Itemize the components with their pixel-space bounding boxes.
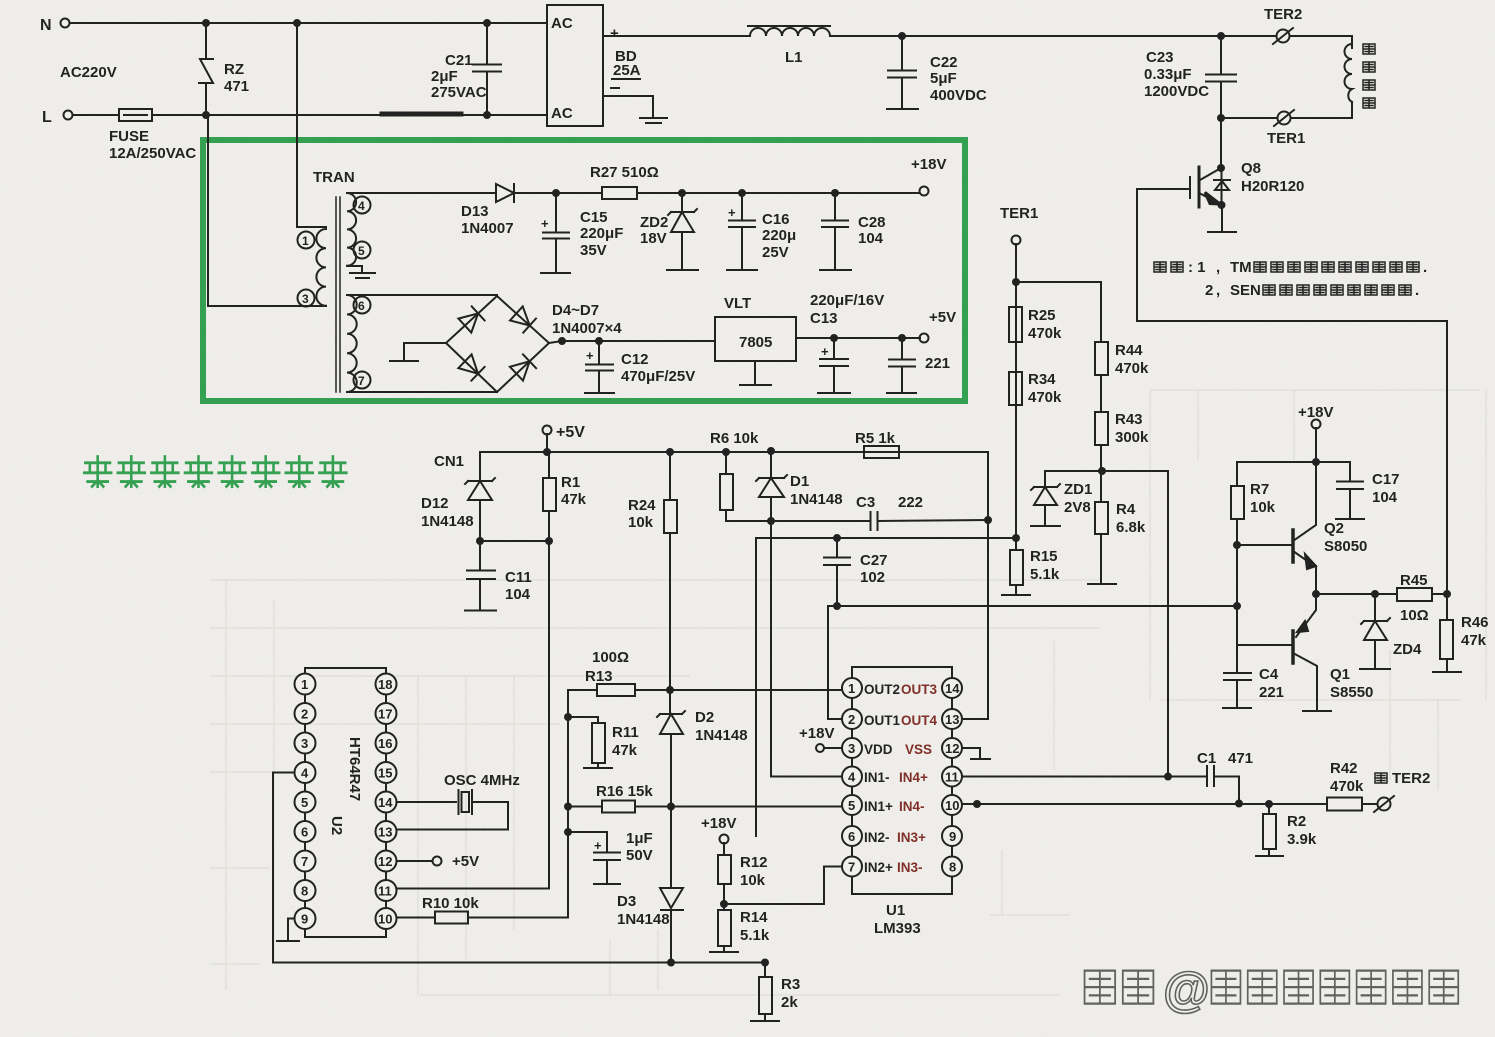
resistor R10 10k [397,895,569,924]
node junction C27 top [834,535,840,541]
transistor Q8 H20R120 IGBT [1190,160,1304,231]
pin 5 U1 [842,795,925,815]
resistor R7 10k [1231,462,1276,545]
wire D12 to R1 bottom [480,540,549,542]
transformer secondary1 winding [347,193,356,266]
crystal OSC 4MHz [397,772,520,830]
node +5V terminal top [920,309,957,343]
node +5V terminal mid [543,424,586,441]
pin 5 U2 [295,792,316,813]
pin 2 U1 [842,709,937,729]
ground secondary1 [350,273,375,278]
inductor L1 [748,26,830,66]
ground R11 [584,767,612,769]
label shuoming note line1 [1154,259,1252,276]
wire L to fuse [73,114,119,116]
resistor R24 10k [628,452,677,690]
wire riser pin2 [828,606,842,719]
diode D3 1N4148 [617,807,683,963]
pin label 5 [354,242,371,259]
wire C23 to Q8 collector [1220,118,1222,168]
ground Q1 collector [1303,710,1331,712]
pin 1 U1 [842,678,937,698]
wire pin11 to riser [397,888,550,890]
pin 8 U2 [295,880,316,901]
resistor R42 470k [1327,760,1377,811]
node junction N-C21 [484,20,490,26]
connector TER1 top [1267,110,1305,147]
pin 18 U2 [376,674,397,695]
wire riser C3 to rail [987,520,989,606]
resistor R27 510 ohm [556,164,682,199]
label heating coil hanzi [1363,44,1375,108]
wire ZD1 top line [1045,470,1168,472]
resistor R4 6.8k [1095,501,1146,583]
pin label 7 [354,372,371,389]
faint scan grid [210,390,1480,995]
capacitor C23 0.33uF 1200VDC [1144,36,1236,119]
ground 7805 [740,384,771,386]
node junction D3 bottom [668,960,674,966]
ground BD minus [640,118,667,123]
node junction C16 [739,190,745,196]
zener ZD1 2V8 [1031,471,1092,525]
pin 10 U1 [942,795,962,815]
wire pin4 riser to bottom rail [272,773,274,963]
node junction emitters [1313,591,1319,597]
pin 4 U2 [273,762,316,783]
node junction L-C21 [484,112,490,118]
capacitor C3 222 [771,494,988,530]
bridge D4~D7 1N4007x4 [446,296,622,392]
pin 9 U2 [295,908,316,929]
node junction C12 [596,338,602,344]
capacitor C27 102 [824,538,888,606]
node junction R11 [565,714,571,720]
wire thick scan segment [382,112,461,117]
pin 14 U1 [942,678,962,698]
wire R5 corner riser [899,452,988,520]
wire TER1 down [1015,244,1017,538]
node junction D1 bottom [768,518,774,524]
pin label 1 [298,232,315,249]
node junction C23 top [1218,33,1224,39]
wire secondary1 bottom to ground [347,266,362,272]
resistor R15 5.1k [1010,538,1060,594]
wire TER2 to coil [1290,36,1352,48]
connector TER2 bottom [1374,796,1394,812]
wire pin10 net [962,803,1327,805]
node junction TER1 split [1013,279,1019,285]
node junction R45-R46 [1444,591,1450,597]
wire bridge left to ground [404,343,446,360]
node junction D2-D3-pin5 [668,804,674,810]
heating coil winding [1291,44,1352,118]
wire Q1 base [1237,644,1293,646]
wire R43 to R4 [1100,445,1102,502]
label CN1 [434,453,464,470]
green highlight box [203,140,965,401]
node junction ZD1 line [1099,468,1105,474]
wire bottom rail [273,962,765,964]
node junction R16 left [565,804,571,810]
pin 3 U2 [295,733,316,754]
wire R7 riser down [1236,545,1238,673]
ground ZD2 [667,269,698,271]
node junction C22 [899,33,905,39]
capacitor C28 104 [820,193,886,270]
node junction 1uF tap [565,829,571,835]
wire R12 junction to pin7 [724,867,842,905]
wire +18V to rail [1237,428,1350,462]
pin 2 U2 [295,703,316,724]
transformer core [336,197,340,392]
resistor R43 300k [1095,411,1149,446]
wire BD plus output [603,35,750,37]
node junction C3 right [985,517,991,523]
varistor RZ 471 [199,23,249,115]
resistor R16 15k [568,783,842,813]
wire riser R13 left [567,690,569,918]
wire bridge output [549,341,715,343]
wire riser R1 to pin11 [548,541,550,889]
bridge rectifier BD 25A block [547,5,641,126]
pin 7 U2 [295,851,316,872]
ground pin12 [971,758,990,760]
pin 14 U2 [376,792,397,813]
wire rail to +18V [835,192,919,194]
node junction pin11-ZD1riser [1165,774,1171,780]
node junction R6 top [723,449,729,455]
connector TER2 [1264,6,1302,44]
wire R44 to R43 [1100,375,1102,412]
pin 11 U1 [942,767,962,787]
node TER1 terminal [1000,205,1038,245]
wire TRAN primary top lead [297,23,326,227]
ground R3 [751,1020,779,1022]
node junction N-TRAN [294,20,300,26]
node junction rail end [1234,603,1240,609]
capacitor C15 220uF 35V [541,193,623,273]
node junction R1 bottom [546,538,552,544]
wire branch to R44 [1016,282,1101,342]
node junction bridge out [559,338,565,344]
node junction pin10 stub [974,801,980,807]
resistor R2 3.9k [1263,804,1317,855]
pin 9 U1 [942,826,962,846]
resistor R25 470k [1009,307,1062,342]
resistor R45 10ohm [1397,572,1447,624]
wire IN2- net [756,538,1016,836]
pin label 4 [354,197,371,214]
node junction R12-R14 [721,901,727,907]
zener ZD4 [1361,594,1422,668]
node junction Q2 collector rail [1313,459,1319,465]
wire pin9 to ground [288,919,295,941]
pin 11 U2 [376,880,397,901]
ground Q8 emitter [1208,231,1236,233]
fuse FUSE 12A/250VAC [109,109,196,162]
wire pin11 net [962,776,1205,778]
transformer TRAN primary winding [313,169,355,306]
node +18V terminal Q2 [1298,404,1333,429]
resistor R3 2k [759,963,800,1021]
wire rail OUT1 net [828,605,1239,607]
node junction C27 bottom [834,603,840,609]
ground ZD4 [1360,668,1390,670]
diode D2 1N4148 [657,690,748,807]
label green caption hanzi [0,0,1,1]
node junction C13 [831,335,837,341]
resistor R34 470k [1009,371,1062,406]
pin label 6 [354,297,371,314]
node junction R7 bottom [1234,542,1240,548]
wire secondary2 top to bridge [347,294,497,296]
node junction R2 top [1266,801,1272,807]
node junction ZD2 [679,190,685,196]
capacitor C21 2uF 275VAC [431,23,501,115]
node +18V terminal top [911,156,946,196]
wire 7805 ground [754,361,756,384]
capacitor C13 220uF/16V [810,292,884,393]
capacitor C12 470uF/25V [585,341,695,393]
ground R15 [1002,594,1030,596]
ground R2 [1256,855,1283,857]
transistor Q1 S8550 [1293,594,1373,710]
capacitor C16 220u 25V [727,193,796,270]
pin 1 U2 [295,674,316,695]
node +5V terminal pin12 [433,853,480,870]
node junction D1 top [768,448,774,454]
capacitor 1uF 50V [568,830,653,884]
ground R46 [1433,671,1461,673]
wire L1 to TER2 node [830,35,1221,37]
wire ZD1 right riser [1167,471,1169,777]
node junction cap221 [899,335,905,341]
node junction C1 bottom [1236,801,1242,807]
resistor R12 10k [718,843,768,904]
wire TRAN primary bottom lead [208,118,326,306]
watermark toutiao [1085,971,1154,1004]
node junction R24 top [667,449,673,455]
wire emitter to R45 [1316,593,1397,595]
pin 7 U1 [842,857,923,877]
node L terminal [42,109,73,126]
ground R4 [1088,583,1116,585]
label green caption strokes [84,457,346,487]
resistor R11 47k [568,717,639,767]
wire R7 to Q2 base [1237,544,1293,546]
wire N rail [70,22,547,24]
node N terminal [40,17,70,34]
resistor R44 470k [1095,342,1149,377]
pin 13 U2 [376,821,397,842]
node +18V terminal pin3 [799,725,834,752]
ground ZD1 [1031,525,1060,527]
ground pin9 [277,940,299,942]
wire pin12 ground hook [962,748,980,758]
capacitor C1 471 [1197,750,1253,804]
label jie TER2 [1375,770,1430,787]
pin 6 U1 [842,826,926,846]
label AC220V [60,64,117,81]
node junction C23 bottom [1218,115,1224,121]
ground R14 [710,951,738,953]
node +18V terminal R12 [701,815,736,844]
diode D1 1N4148 [756,451,843,521]
resistor R1 47k [543,452,587,541]
node junction +5V riser [544,449,550,455]
regulator VLT 7805 [715,295,796,361]
pin 17 U2 [376,703,397,724]
pin 15 U2 [376,762,397,783]
node junction D12-C11 [477,538,483,544]
pin 8 U1 [942,857,962,877]
pin 10 U2 [376,908,397,929]
node junction L-RZ [203,112,209,118]
capacitor C11 104 [465,541,532,611]
pin 6 U2 [295,821,316,842]
wire rail to C16 [682,192,742,194]
op-amp U2 HT64R47 body [305,668,386,937]
node junction R24-D2-R13 [667,687,673,693]
op-amp U1 LM393 body [852,667,952,937]
ground bridge left [390,360,418,362]
wire +5V rail [480,434,988,452]
wire D1 riser to pin4 [771,521,842,777]
transistor Q2 S8050 [1293,462,1367,594]
pin 12 U2 [376,851,397,872]
capacitor C17 104 [1336,462,1400,519]
wire L rail [152,114,547,116]
wire Q8 gate run [1137,189,1447,594]
resistor R46 47k [1440,594,1489,671]
pin label 3 [298,290,315,307]
resistor R6 10k [710,430,771,521]
capacitor C4 221 [1223,666,1284,708]
zener ZD2 18V [640,193,697,269]
resistor R14 5.1k [718,904,770,951]
wire rail to C28 [742,192,835,194]
wire pin12 to +5V [397,860,433,862]
pin 3 U1 [824,738,932,758]
capacitor 221 [887,338,950,393]
node junction C28 [832,190,838,196]
resistor R5 1k [855,430,899,458]
pin 4 U1 [842,767,928,787]
node junction R15 top [1013,535,1019,541]
wire pin13 riser to C3 [962,520,988,719]
pin 13 U1 [942,709,962,729]
wire 7805 output [796,337,920,339]
transformer secondary2 winding [347,295,357,392]
pin 16 U2 [376,733,397,754]
wire TER1 to C23 bottom [1221,117,1277,119]
node junction C15 [553,190,559,196]
wire to TER2 [1221,35,1276,37]
diode D12 1N4148 [421,452,495,541]
node junction N-RZ [203,20,209,26]
diode D13 1N4007 [347,184,556,237]
node junction ZD4 [1372,591,1378,597]
pin 12 U1 [942,738,962,758]
node junction R3 top [762,960,768,966]
wire secondary2 bottom to bridge [347,391,497,393]
capacitor C22 5uF 400VDC [887,36,987,109]
label shuoming note line2 [1205,282,1261,299]
resistor R13 100ohm [568,649,842,696]
wire BD minus to ground [603,96,653,117]
node junction Q8 collector [1218,165,1224,171]
